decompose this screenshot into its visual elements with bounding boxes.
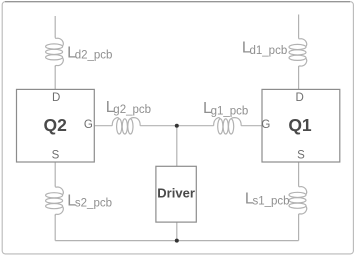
svg-text:G: G <box>84 119 93 131</box>
svg-text:Q1: Q1 <box>288 115 312 135</box>
svg-text:Q2: Q2 <box>44 115 68 135</box>
svg-text:D: D <box>52 92 60 104</box>
svg-text:Driver: Driver <box>157 186 195 201</box>
svg-text:S: S <box>52 150 60 162</box>
svg-text:S: S <box>297 150 305 162</box>
svg-text:D: D <box>295 92 303 104</box>
svg-text:G: G <box>261 119 270 131</box>
